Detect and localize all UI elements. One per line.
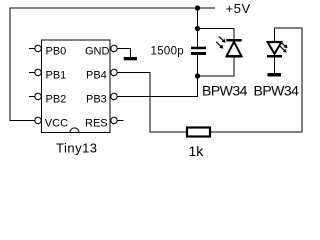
pin VCC circle (35, 117, 41, 123)
pin RES circle (111, 117, 117, 123)
svg-text:PB4: PB4 (86, 70, 107, 82)
capacitor C1 bottom plate (191, 52, 206, 55)
wire +5V rail down to capacitor (197, 8, 199, 47)
wire PB3 to capacitor/diode node (117, 76, 197, 97)
ground symbol at D2 (268, 73, 282, 77)
wire capacitor bottom to node (197, 55, 199, 97)
photodiode D1 light arrow 2 (216, 42, 223, 49)
pin PB1 circle (35, 69, 41, 75)
IC U1 Tiny13 box (42, 40, 111, 133)
pin RES stub (117, 120, 123, 122)
IC notch (dome on bottom edge) (70, 128, 79, 133)
node junction dot on +5V rail (195, 5, 200, 10)
node junction dot capacitor top branch (195, 26, 200, 31)
pin PB1 stub (29, 72, 35, 74)
wire D2 cathode to ground (274, 58, 276, 74)
photodiode D2 triangle (inverted) (268, 42, 282, 54)
svg-text:BPW34: BPW34 (202, 83, 248, 99)
wire node to photodiode D1 top (198, 29, 235, 40)
photodiode D2 light arrow 1 (281, 42, 288, 48)
wire PB4 to resistor R1 (117, 73, 186, 133)
pin PB2 circle (35, 93, 41, 99)
svg-text:PB1: PB1 (46, 70, 67, 82)
photodiode D1 cathode bar (226, 39, 241, 42)
photodiode D2 light arrow 2 (280, 46, 287, 53)
svg-text:PB2: PB2 (46, 94, 67, 106)
pin GND circle (111, 45, 117, 51)
svg-text:1500p: 1500p (151, 46, 184, 58)
resistor R1 body (187, 128, 210, 137)
svg-text:1k: 1k (189, 143, 205, 159)
pin PB4 circle (111, 69, 117, 75)
svg-text:VCC: VCC (45, 118, 68, 130)
wire D1 anode to node (198, 56, 235, 76)
photodiode D2 anode top bar (267, 41, 282, 43)
pin PB2 stub (29, 96, 35, 98)
wire resistor to diode D2 anode (right loop) (211, 28, 302, 132)
wire GND pin to ground (117, 49, 130, 58)
svg-text:GND: GND (85, 46, 110, 58)
svg-text:PB3: PB3 (86, 94, 107, 106)
photodiode D1 triangle (227, 42, 242, 56)
pin PB3 circle (111, 93, 117, 99)
photodiode D1 light arrow 1 (219, 36, 226, 42)
svg-text:RES: RES (85, 118, 108, 130)
capacitor C1 top plate (191, 47, 206, 50)
ground symbol at GND pin (124, 57, 137, 60)
wire +5V rail and left rail to VCC (10, 8, 215, 121)
pin PB0 circle (35, 45, 41, 51)
svg-text:BPW34: BPW34 (254, 83, 300, 99)
svg-text:Tiny13: Tiny13 (56, 140, 98, 155)
svg-text:+5V: +5V (226, 1, 251, 16)
node junction dot diode1/cap/PB3 (195, 73, 200, 78)
svg-text:PB0: PB0 (46, 46, 67, 58)
photodiode D1 triangle base bar (226, 55, 241, 58)
pin PB0 stub (29, 48, 35, 50)
photodiode D2 cathode bar (267, 55, 282, 58)
